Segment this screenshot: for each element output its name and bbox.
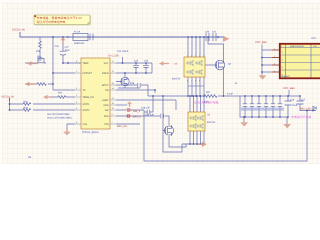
svg-text:1: 1 xyxy=(187,55,188,58)
svg-text:5: 5 xyxy=(203,55,204,58)
svg-text:C26: C26 xyxy=(55,45,60,48)
svg-text:mm: mm xyxy=(313,45,317,48)
svg-text:STAT1: STAT1 xyxy=(83,103,91,106)
svg-text:TS: TS xyxy=(83,89,86,92)
svg-text:R31: R31 xyxy=(58,92,63,95)
svg-text:C20: C20 xyxy=(205,30,210,33)
svg-text:GND: GND xyxy=(103,104,108,107)
svg-text:TREF: TREF xyxy=(83,62,90,65)
svg-text:VSS: VSS xyxy=(83,123,88,126)
svg-text:F1 2A: F1 2A xyxy=(74,31,81,34)
svg-text:SW_1: SW_1 xyxy=(133,110,141,113)
svg-text:RSEN: RSEN xyxy=(102,72,109,75)
svg-text:B-: B- xyxy=(235,82,238,85)
svg-text:SMD1812: SMD1812 xyxy=(74,42,85,45)
svg-text:PB: PB xyxy=(28,156,32,159)
svg-text:VCC: VCC xyxy=(104,62,109,65)
svg-text:Vbat=4.2V*(100K/136K): Vbat=4.2V*(100K/136K) xyxy=(47,116,72,119)
svg-text:R33: R33 xyxy=(24,106,29,109)
svg-text:PN: PN xyxy=(105,89,109,92)
svg-text:C28 1uF: C28 1uF xyxy=(141,106,150,109)
svg-text:TP1: TP1 xyxy=(37,55,42,58)
svg-text:INTVT: INTVT xyxy=(102,84,109,87)
svg-text:4: 4 xyxy=(199,55,200,58)
svg-text:VTB: VTB xyxy=(104,123,109,126)
svg-text:C21: C21 xyxy=(212,30,217,33)
svg-text:3: 3 xyxy=(195,55,196,58)
svg-text:TERM_EN: TERM_EN xyxy=(83,96,94,99)
svg-text:VCC5V_IN: VCC5V_IN xyxy=(1,95,14,98)
svg-text:8: 8 xyxy=(195,80,196,83)
svg-text:UPPSET: UPPSET xyxy=(83,72,93,75)
svg-text:8205TA: 8205TA xyxy=(207,121,216,124)
svg-text:Header4: Header4 xyxy=(281,75,291,78)
svg-text:SEN: SEN xyxy=(104,115,109,118)
svg-text:C24 100nF: C24 100nF xyxy=(117,50,129,53)
svg-text:R30: R30 xyxy=(36,50,41,53)
svg-text:C29 1uF: C29 1uF xyxy=(145,113,154,116)
svg-text:VCC: VCC xyxy=(311,37,316,40)
svg-text:VCC_Batt: VCC_Batt xyxy=(255,41,267,44)
svg-text:BAT_US: BAT_US xyxy=(117,125,127,128)
svg-text:R32: R32 xyxy=(24,100,29,103)
svg-text:LIGBT: LIGBT xyxy=(102,99,109,102)
svg-text:C16: C16 xyxy=(290,98,295,101)
svg-text:Vout=5V*(100K/136K): Vout=5V*(100K/136K) xyxy=(47,113,70,116)
svg-text:Tin 1.25V: Tin 1.25V xyxy=(108,54,119,57)
svg-text:VCC5V_IN: VCC5V_IN xyxy=(12,29,25,32)
svg-text:8205A充电保护电路: 8205A充电保护电路 xyxy=(193,100,219,104)
svg-text:C23: C23 xyxy=(144,60,149,63)
svg-text:R27: R27 xyxy=(206,91,211,94)
svg-text:VCC_Batt: VCC_Batt xyxy=(283,87,295,90)
svg-text:9: 9 xyxy=(199,80,200,83)
svg-text:8205TA: 8205TA xyxy=(172,78,181,81)
svg-text:10uF: 10uF xyxy=(292,104,298,107)
svg-text:7: 7 xyxy=(191,80,192,83)
svg-text:BAT_LED: BAT_LED xyxy=(300,107,311,110)
svg-text:C22: C22 xyxy=(134,60,139,63)
svg-text:0.1uF: 0.1uF xyxy=(227,92,233,95)
svg-text:TP5100_QFN16: TP5100_QFN16 xyxy=(82,131,99,134)
svg-text:BAT_1: BAT_1 xyxy=(133,115,141,118)
svg-text:定压方可对锂电池充电: 定压方可对锂电池充电 xyxy=(37,20,66,24)
svg-text:STAT2: STAT2 xyxy=(83,109,91,112)
svg-text:10uF: 10uF xyxy=(65,49,71,52)
svg-text:C17: C17 xyxy=(301,98,306,101)
svg-text:C27: C27 xyxy=(65,46,70,49)
svg-text:R28: R28 xyxy=(130,82,135,85)
svg-text:2: 2 xyxy=(191,55,192,58)
svg-text:6: 6 xyxy=(187,80,188,83)
svg-text:MMDDSSWW: MMDDSSWW xyxy=(290,45,305,48)
svg-text:充电指示灯电路: 充电指示灯电路 xyxy=(291,115,311,119)
